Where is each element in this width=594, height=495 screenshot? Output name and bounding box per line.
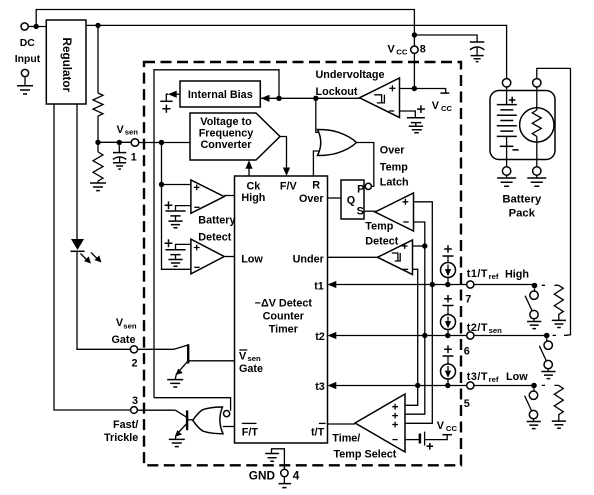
svg-text:Battery: Battery <box>502 193 542 205</box>
svg-text:Ck: Ck <box>246 181 261 193</box>
svg-text:F/V: F/V <box>280 181 298 193</box>
svg-text:Battery: Battery <box>198 215 235 227</box>
svg-text:Timer: Timer <box>269 324 299 336</box>
svg-text:3: 3 <box>132 395 138 407</box>
svg-text:t/T: t/T <box>311 426 325 438</box>
svg-text:High: High <box>505 268 529 280</box>
svg-text:t3/T: t3/T <box>467 371 488 383</box>
svg-text:Internal Bias: Internal Bias <box>188 89 253 101</box>
svg-text:Counter: Counter <box>263 311 305 323</box>
svg-text:Detect: Detect <box>198 231 231 243</box>
svg-text:sen: sen <box>489 326 503 335</box>
svg-text:CC: CC <box>396 48 408 57</box>
svg-text:Temp: Temp <box>380 161 408 173</box>
svg-text:Latch: Latch <box>380 176 409 188</box>
svg-text:Over: Over <box>299 193 324 205</box>
svg-text:Temp: Temp <box>365 220 393 232</box>
svg-text:V: V <box>432 100 440 112</box>
svg-text:1: 1 <box>131 152 137 164</box>
svg-text:High: High <box>241 192 265 204</box>
svg-text:Input: Input <box>15 54 41 65</box>
svg-text:t1/T: t1/T <box>467 268 488 280</box>
svg-text:S: S <box>357 206 364 218</box>
svg-text:−ΔV Detect: −ΔV Detect <box>255 297 313 309</box>
svg-text:sen: sen <box>123 322 137 331</box>
svg-text:CC: CC <box>446 424 458 433</box>
svg-text:Low: Low <box>506 371 528 383</box>
svg-text:P: P <box>357 184 364 196</box>
svg-text:Converter: Converter <box>200 139 252 151</box>
svg-text:Over: Over <box>380 145 405 157</box>
svg-text:Undervoltage: Undervoltage <box>316 69 385 81</box>
svg-text:Gate: Gate <box>239 363 263 375</box>
svg-text:ref: ref <box>489 375 499 384</box>
svg-text:Fast/: Fast/ <box>113 419 138 431</box>
svg-text:Under: Under <box>293 254 325 266</box>
svg-text:t2/T: t2/T <box>467 322 488 334</box>
svg-text:Low: Low <box>241 254 263 266</box>
svg-text:t1: t1 <box>314 281 324 293</box>
svg-text:Voltage to: Voltage to <box>200 116 252 128</box>
svg-text:V: V <box>239 351 247 363</box>
svg-text:sen: sen <box>125 128 139 137</box>
svg-text:V: V <box>437 420 445 432</box>
svg-text:V: V <box>388 44 396 56</box>
svg-text:V: V <box>117 124 125 136</box>
svg-text:R: R <box>312 180 320 192</box>
svg-text:Lockout: Lockout <box>316 86 358 98</box>
svg-text:Q: Q <box>347 195 355 207</box>
svg-text:Frequency: Frequency <box>199 127 254 139</box>
svg-text:Time/: Time/ <box>332 432 360 444</box>
svg-text:DC: DC <box>20 38 36 49</box>
svg-text:4: 4 <box>293 469 300 483</box>
svg-text:6: 6 <box>464 345 470 357</box>
svg-text:t2: t2 <box>315 331 325 343</box>
svg-text:sen: sen <box>248 354 262 363</box>
svg-text:Regulator: Regulator <box>60 38 73 93</box>
svg-text:Detect: Detect <box>365 236 398 248</box>
svg-text:2: 2 <box>132 357 138 369</box>
svg-text:CC: CC <box>441 104 453 113</box>
svg-text:7: 7 <box>465 293 471 305</box>
svg-text:8: 8 <box>420 44 426 56</box>
svg-text:Pack: Pack <box>509 207 536 219</box>
svg-text:Temp Select: Temp Select <box>334 449 397 461</box>
svg-text:F/T: F/T <box>242 426 259 438</box>
svg-text:5: 5 <box>464 398 470 410</box>
svg-text:t3: t3 <box>315 381 325 393</box>
svg-text:Gate: Gate <box>112 334 136 346</box>
svg-text:ref: ref <box>489 272 499 281</box>
svg-text:GND: GND <box>249 469 276 483</box>
svg-text:Trickle: Trickle <box>104 432 138 444</box>
